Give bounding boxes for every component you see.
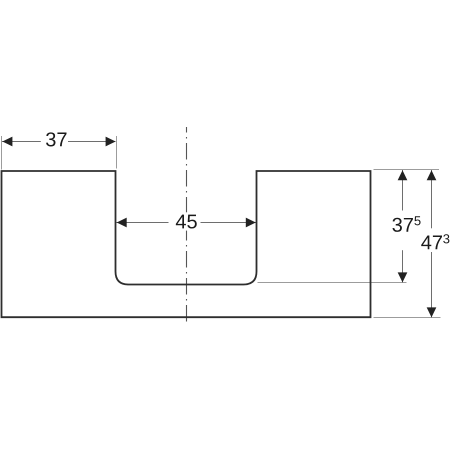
extension line cutout bottom bbox=[258, 282, 407, 284]
label 37_5 bbox=[390, 211, 422, 251]
label 45 bbox=[169, 212, 201, 230]
dimension line 47_3 bbox=[427, 170, 437, 318]
washtop outline with cutout bbox=[2, 171, 371, 317]
label 37 bbox=[41, 131, 68, 151]
extension line bottom right bbox=[374, 317, 441, 319]
dimension line 37 bbox=[2, 137, 116, 147]
centerline bbox=[186, 127, 188, 322]
label 47_3 bbox=[419, 228, 450, 252]
extension line left of dim 37 bbox=[1, 136, 3, 170]
extension line top right bbox=[374, 169, 440, 171]
dimension line 37_5 bbox=[398, 170, 408, 283]
dimension line 45 bbox=[116, 218, 256, 228]
extension line right of dim 37 bbox=[116, 136, 118, 169]
